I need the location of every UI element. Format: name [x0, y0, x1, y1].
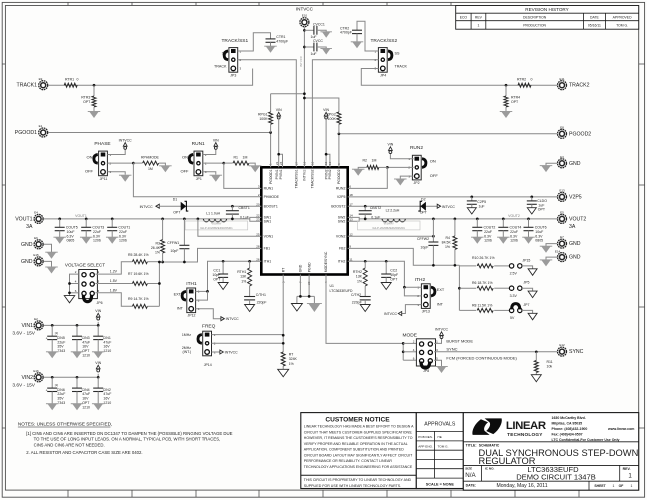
capacitor CLDO 1uF OPT — [531, 197, 533, 201]
wire E7 to ground — [546, 244, 557, 247]
svg-text:0: 0 — [531, 78, 533, 82]
terminal E4 VOUT1 — [34, 214, 43, 223]
resistor RPHMODE 1M — [133, 162, 142, 164]
svg-text:GND: GND — [569, 255, 581, 261]
ground below RTR4 — [501, 112, 511, 119]
svg-text:JP13: JP13 — [422, 309, 430, 313]
node RUN1 junction — [222, 162, 225, 165]
svg-text:REVISION HISTORY: REVISION HISTORY — [525, 7, 568, 12]
INTVCC flag at JP13 — [398, 312, 401, 316]
wire JP4 pin1 to CTR2 — [357, 21, 378, 51]
ground at JP8 pin5 — [437, 367, 447, 374]
svg-text:4700pF: 4700pF — [340, 31, 352, 35]
svg-text:JP14: JP14 — [204, 363, 212, 367]
svg-text:CIN5 AND CIN6 ARE NOT NEEDED.: CIN5 AND CIN6 ARE NOT NEEDED. — [34, 442, 105, 447]
terminal E9 TRACK1 — [39, 81, 48, 90]
resistor RTR3 OPT — [93, 85, 95, 96]
node JP6 bus pin4 — [68, 282, 71, 285]
svg-text:[1]: [1] — [55, 383, 58, 387]
ground below COUT4 — [499, 237, 509, 244]
svg-text:V2P5: V2P5 — [337, 195, 346, 199]
svg-text:INTVCC: INTVCC — [296, 7, 314, 12]
svg-text:PHMODE: PHMODE — [264, 195, 280, 199]
capacitor CTR1 4700pF — [266, 38, 276, 40]
svg-text:(INT.): (INT.) — [182, 350, 191, 354]
svg-text:ITH1: ITH1 — [264, 260, 272, 264]
ground below CIN3 — [72, 352, 82, 359]
svg-text:CTR2: CTR2 — [340, 26, 349, 30]
resistor RTR1 0 — [64, 83, 77, 87]
capacitor CVCC1 1uF — [304, 29, 314, 31]
svg-text:6.3V: 6.3V — [67, 234, 75, 238]
svg-text:OPT: OPT — [213, 278, 221, 282]
capacitor CC1 10pF OPT — [222, 261, 224, 274]
svg-text:VIN: VIN — [276, 108, 282, 112]
node BOOST1/CBST1 — [231, 205, 234, 208]
node FB2/R4 — [454, 264, 457, 267]
capacitor CIN1 47uF — [97, 324, 100, 327]
svg-text:JP3: JP3 — [230, 74, 236, 78]
svg-text:CVCC1: CVCC1 — [313, 22, 325, 26]
ground below COUT5 — [55, 237, 64, 244]
wire VIN1 rail — [44, 324, 99, 326]
resistor R2 1M — [379, 166, 388, 168]
svg-text:CIN5: CIN5 — [57, 336, 65, 340]
svg-text:INTVCC: INTVCC — [119, 138, 133, 142]
svg-text:CFFW2: CFFW2 — [417, 237, 429, 241]
svg-text:324K: 324K — [289, 357, 298, 361]
svg-text:6.3V: 6.3V — [93, 234, 101, 238]
svg-text:GND: GND — [21, 259, 33, 265]
wire JP11 pin3 to ground — [107, 172, 125, 175]
ground after RPHMODE — [161, 166, 171, 173]
svg-text:10pF: 10pF — [420, 245, 428, 249]
svg-text:JP15: JP15 — [522, 258, 530, 262]
svg-text:SUPPLIED FOR USE WITH LINEAR T: SUPPLIED FOR USE WITH LINEAR TECHNOLOGY … — [304, 484, 401, 488]
svg-text:R4: R4 — [446, 236, 451, 240]
svg-text:3.6V - 15V: 3.6V - 15V — [12, 383, 35, 389]
wire to signal ground — [296, 296, 298, 303]
svg-text:100K: 100K — [259, 117, 268, 121]
ground below COUT6 — [524, 237, 534, 244]
wire MODE/SYNC pin to JP8 — [326, 275, 403, 344]
resistor R11 10k — [535, 352, 537, 361]
terminal E7 GND — [558, 239, 567, 248]
svg-text:TRACK/SS1: TRACK/SS1 — [295, 169, 299, 188]
node JP6 bus pin6 — [68, 291, 71, 294]
terminal E6 GND — [34, 240, 43, 249]
svg-text:TOM G.: TOM G. — [438, 445, 449, 449]
capacitor COUT3 22uF — [85, 218, 88, 221]
svg-text:RTR1: RTR1 — [65, 78, 74, 82]
wire JP13 pin3 to INTVCC flag — [402, 305, 422, 314]
svg-text:R11: R11 — [547, 360, 553, 364]
svg-text:3A: 3A — [26, 224, 33, 230]
svg-text:DEMO CIRCUIT 1347B: DEMO CIRCUIT 1347B — [516, 473, 596, 482]
svg-text:SW1: SW1 — [264, 220, 272, 224]
capacitor COUT1 22uF — [111, 218, 114, 221]
svg-text:E3: E3 — [560, 155, 564, 159]
svg-text:SS: SS — [395, 52, 400, 56]
resistor R9 14.7K — [132, 304, 147, 308]
node VOUT1/VON1 — [197, 218, 200, 221]
svg-text:E15: E15 — [33, 253, 39, 257]
jumper JP3 TRACK/SS1 — [229, 48, 238, 73]
node TRACK1/RTR3 junction — [93, 84, 96, 87]
shunt on JP8 bottom row — [421, 362, 430, 368]
wire JP12 pin2 — [196, 291, 208, 300]
svg-text:R2: R2 — [363, 159, 368, 163]
svg-text:E7: E7 — [560, 235, 564, 239]
svg-text:INTVcc: INTVcc — [303, 169, 307, 180]
node JP12 pins1-2 — [206, 290, 209, 293]
wire JP13 pin2 — [404, 287, 421, 296]
svg-text:E4: E4 — [34, 211, 38, 215]
ground below C/TH1 — [245, 305, 255, 312]
terminal E1 PGOOD1 — [39, 128, 48, 137]
svg-text:R8 11.5K 1%: R8 11.5K 1% — [472, 303, 492, 307]
wire JP8 pin4 stub — [403, 351, 416, 353]
svg-text:FB2: FB2 — [339, 247, 345, 251]
capacitor CVCC2 1uF — [304, 46, 314, 48]
svg-text:D2: D2 — [421, 197, 426, 201]
wire PVIN2 feed — [325, 118, 327, 168]
ground below COUT1 — [107, 237, 117, 244]
svg-text:CIN2: CIN2 — [103, 388, 111, 392]
svg-text:10uF: 10uF — [535, 230, 543, 234]
svg-text:22uF: 22uF — [484, 230, 492, 234]
power ground symbol — [308, 304, 320, 313]
node PHMODE junction — [132, 162, 135, 165]
svg-text:IC NO.: IC NO. — [485, 467, 495, 471]
svg-text:GND: GND — [21, 242, 33, 248]
wire PHMODE to U1 — [133, 163, 261, 197]
ground at JP7 — [528, 313, 537, 320]
svg-text:CTR1: CTR1 — [276, 35, 285, 39]
ground below JP6 — [64, 296, 75, 303]
svg-text:1%: 1% — [289, 362, 294, 366]
svg-text:1.5V: 1.5V — [110, 279, 118, 283]
svg-text:16V: 16V — [82, 397, 89, 401]
capacitor CIN4 47uF — [76, 376, 79, 379]
svg-text:84.5K: 84.5K — [442, 241, 452, 245]
svg-text:COUT4: COUT4 — [510, 226, 522, 230]
ground below CC1 — [218, 283, 228, 290]
svg-text:OPT: OPT — [82, 349, 90, 353]
svg-text:RTH2: RTH2 — [353, 270, 362, 274]
svg-text:CIRCUIT BOARD LAYOUT MAY SIGNI: CIRCUIT BOARD LAYOUT MAY SIGNIFICANTLY A… — [304, 453, 413, 457]
svg-text:JP1: JP1 — [196, 177, 202, 181]
svg-text:1630 McCarthy Blvd.: 1630 McCarthy Blvd. — [552, 416, 586, 420]
svg-text:APPLICATION. COMPONENT SUBSTI: APPLICATION. COMPONENT SUBSTITUTION AND … — [304, 448, 404, 452]
wire PGOOD2 riser to U1 — [338, 134, 340, 168]
svg-text:PGOOD1: PGOOD1 — [269, 169, 273, 184]
Linear Technology logo — [472, 419, 489, 435]
svg-text:INTVCC: INTVCC — [442, 205, 456, 209]
node ITH1/RTH1 — [248, 260, 251, 263]
svg-text:PVIN1: PVIN1 — [279, 169, 283, 179]
svg-text:PGOOD2: PGOOD2 — [337, 169, 341, 184]
svg-text:COUT3: COUT3 — [92, 226, 104, 230]
svg-text:ITH2: ITH2 — [338, 260, 346, 264]
capacitor CTR2 4700pF — [352, 29, 362, 31]
svg-text:INTVCC: INTVCC — [299, 55, 303, 67]
wire JP15 to ground — [522, 266, 533, 269]
svg-text:VERIFY PROPER AND RELIABLE OPE: VERIFY PROPER AND RELIABLE OPERATION IN … — [304, 442, 408, 446]
svg-text:OPT: OPT — [83, 100, 91, 104]
ground at E7 — [541, 246, 551, 253]
svg-text:ON: ON — [182, 154, 188, 159]
svg-text:FB1: FB1 — [264, 247, 270, 251]
ground after R2 — [353, 169, 363, 176]
capacitor C/TH2 220pF — [360, 296, 371, 298]
resistor RPG2 100K pullup — [304, 98, 339, 112]
wire V2P5 net — [348, 196, 557, 198]
node JP8 bus pin4 — [402, 350, 405, 353]
wire RT net — [282, 275, 284, 353]
svg-text:VIN2: VIN2 — [21, 375, 33, 381]
svg-text:JP2: JP2 — [413, 181, 419, 185]
node PGOOD1/RPG1 — [269, 131, 272, 134]
svg-text:DATE: DATE — [590, 16, 600, 20]
svg-text:1uF: 1uF — [479, 204, 485, 208]
svg-text:OPT: OPT — [538, 208, 546, 212]
node PVIN2 tie — [325, 153, 328, 156]
wire R8 row — [459, 309, 476, 311]
svg-text:TO THE USE OF LONG INPUT LEADS: TO THE USE OF LONG INPUT LEADS. ON A NOR… — [34, 437, 221, 442]
ground at JP1 pin3 — [211, 175, 221, 182]
node ITH1/CC1 — [222, 260, 225, 263]
svg-text:SCALE = NONE: SCALE = NONE — [426, 482, 455, 486]
wire E6 to ground — [44, 244, 52, 252]
ground at E3 — [541, 166, 551, 173]
wire E14 to ground — [546, 257, 557, 260]
svg-text:JP5: JP5 — [523, 281, 529, 285]
wire JP2 pin3 to ground — [400, 176, 413, 179]
svg-text:220pF: 220pF — [352, 301, 362, 305]
ground below RTR3 — [89, 112, 99, 119]
wire BOOST2 net — [348, 205, 438, 207]
svg-text:Milpitas, CA 95035: Milpitas, CA 95035 — [552, 421, 583, 425]
node CVCC2 tap — [303, 46, 306, 49]
svg-text:ITH2: ITH2 — [415, 277, 426, 283]
svg-text:6.3V: 6.3V — [484, 234, 492, 238]
node V2P5/CLDO — [530, 196, 533, 199]
svg-text:VON2: VON2 — [336, 235, 346, 239]
svg-text:1: 1 — [631, 484, 633, 488]
svg-text:1uF: 1uF — [311, 52, 317, 56]
jumper JP7 5V with shunt — [509, 308, 513, 312]
wire JP14 pin2 to RT — [212, 342, 284, 344]
svg-text:E11: E11 — [559, 77, 564, 81]
node ITH2/RTH2 — [364, 260, 367, 263]
capacitor CIN6 22uF — [51, 376, 54, 379]
wire E15 to ground — [44, 261, 52, 267]
node INTVCC/RPG2 — [303, 97, 306, 100]
svg-text:JP11: JP11 — [100, 177, 108, 181]
wire JP8 pin5 to ground — [434, 360, 441, 366]
svg-text:CFFW1: CFFW1 — [167, 241, 179, 245]
jumper JP12 ITH1 — [187, 288, 196, 313]
svg-text:DATE:: DATE: — [466, 484, 476, 488]
customer notice box — [301, 413, 417, 489]
svg-text:JP8: JP8 — [423, 369, 429, 373]
svg-text:SHEET: SHEET — [594, 484, 606, 488]
svg-text:PRODUCTION: PRODUCTION — [523, 23, 546, 27]
wire JP6 pin3 1.5V row — [95, 283, 132, 285]
svg-text:INTVCC: INTVCC — [140, 205, 154, 209]
signal ground symbol — [291, 304, 302, 312]
svg-text:OPT: OPT — [173, 210, 181, 214]
svg-text:OF: OF — [619, 484, 624, 488]
svg-text:COUT2: COUT2 — [484, 226, 496, 230]
svg-text:VOUT2: VOUT2 — [569, 216, 586, 222]
wire RUN2 to U1 — [348, 167, 388, 188]
svg-text:VISHAY: VISHAY — [211, 222, 221, 226]
svg-text:SCHEMATIC: SCHEMATIC — [479, 444, 500, 448]
terminal E14 GND — [558, 253, 567, 262]
ground at JP11 pin3 — [120, 175, 130, 182]
svg-text:PGOOD1: PGOOD1 — [15, 130, 37, 136]
wire JP6 pin1 1.2V row — [95, 262, 132, 274]
wire PVIN1 feed — [278, 118, 280, 168]
svg-text:COUT6: COUT6 — [535, 226, 547, 230]
svg-text:47uF: 47uF — [82, 392, 90, 396]
node FB1/CFFW1 — [183, 261, 186, 264]
wire VIN2 rail — [44, 376, 99, 378]
wire JP12 pin3 to INTVCC flag — [196, 309, 221, 319]
resistor R1 1M — [224, 162, 233, 164]
svg-text:BOOST2: BOOST2 — [331, 205, 345, 209]
svg-text:E14: E14 — [555, 249, 561, 253]
wire SW2 pins bracket — [348, 217, 360, 221]
svg-text:VON1: VON1 — [264, 235, 274, 239]
resistor R6 18.7K — [477, 286, 493, 290]
svg-text:RTR2: RTR2 — [517, 78, 526, 82]
node FB1/R3 — [161, 261, 164, 264]
wire JP4 pin2 TRACK/SS2 to U1 — [312, 60, 378, 168]
svg-text:22uF: 22uF — [119, 230, 127, 234]
svg-text:REV: REV — [475, 16, 483, 20]
jumper JP13 ITH2 — [421, 284, 430, 309]
svg-text:1: 1 — [477, 23, 479, 27]
wire BOOST1 net — [159, 205, 261, 207]
jumper JP11 PHASE — [99, 151, 108, 176]
revision history table — [456, 6, 639, 30]
svg-text:INT: INT — [177, 307, 184, 311]
wire JP13 pin1 to ITH2 — [404, 286, 421, 288]
svg-text:GND: GND — [569, 161, 581, 167]
svg-text:JP12: JP12 — [188, 314, 196, 318]
svg-text:6.3V: 6.3V — [119, 234, 127, 238]
svg-text:CBST1: CBST1 — [239, 206, 250, 210]
terminal E8 PGOOD2 — [558, 129, 567, 138]
node bus R6 row — [458, 287, 461, 290]
svg-text:TOM G.: TOM G. — [616, 23, 628, 27]
node VON2/CFFW2 — [432, 235, 435, 238]
svg-text:6.3V: 6.3V — [535, 234, 543, 238]
INTVCC flag at JP8 — [440, 332, 444, 336]
svg-text:HE: HE — [438, 435, 442, 439]
svg-text:PERFORMANCE OR RELIABILITY. C: PERFORMANCE OR RELIABILITY. CONTACT LINE… — [304, 459, 393, 463]
svg-text:PGND: PGND — [307, 262, 311, 272]
svg-text:1: 1 — [613, 484, 615, 488]
svg-text:TITLE:: TITLE: — [466, 444, 477, 448]
svg-text:L1 1.0uH: L1 1.0uH — [206, 211, 220, 215]
jumper JP6 voltage select — [79, 270, 98, 299]
jumper JP8 MODE — [416, 339, 435, 366]
resistor R7 19.6K — [132, 282, 147, 286]
svg-text:1210: 1210 — [103, 349, 111, 353]
wire PGND pin to ground tie — [308, 275, 310, 297]
svg-text:TRACK/SS1: TRACK/SS1 — [222, 38, 249, 44]
svg-text:2. ALL RESISTOR AND CAPACITOR: 2. ALL RESISTOR AND CAPACITOR CASE SIZE … — [26, 450, 142, 455]
resistor RT 324K — [281, 352, 285, 366]
jumper JP2 RUN2 — [412, 155, 421, 180]
svg-text:+: + — [46, 388, 48, 392]
svg-text:05/16/11: 05/16/11 — [588, 23, 601, 27]
wire FB1 divider bus — [158, 262, 160, 307]
svg-text:IHLP-2020BZER1R0M01: IHLP-2020BZER1R0M01 — [200, 226, 233, 230]
svg-text:VOLTAGE SELECT: VOLTAGE SELECT — [65, 263, 105, 268]
svg-text:0: 0 — [77, 78, 79, 82]
svg-text:Monday, May 16, 2011: Monday, May 16, 2011 — [496, 483, 547, 489]
node VOUT2/R4 — [454, 218, 457, 221]
ground after R1 — [250, 166, 260, 173]
ground below COUT2 — [473, 237, 483, 244]
svg-text:GND: GND — [299, 264, 303, 272]
svg-text:100K: 100K — [328, 117, 337, 121]
wire SW1 pins bracket — [250, 217, 261, 221]
node ITH2/CC2 — [385, 260, 388, 263]
svg-text:R10 26.7K 1%: R10 26.7K 1% — [472, 256, 495, 260]
wire JP1 pin2 RUN1 net — [203, 162, 224, 164]
svg-text:47uF: 47uF — [82, 340, 90, 344]
svg-text:VOUT1: VOUT1 — [75, 214, 87, 218]
svg-text:220pF: 220pF — [257, 301, 267, 305]
node SW2/CBST2 — [364, 218, 367, 221]
ground below R11 — [531, 375, 541, 382]
wire JP6 pin5 1.8V row — [95, 293, 132, 307]
svg-text:1210: 1210 — [103, 401, 111, 405]
ground at JP15 — [528, 269, 537, 276]
svg-text:7343: 7343 — [57, 401, 65, 405]
ground after CVCC1 — [322, 32, 331, 38]
svg-text:FREQ: FREQ — [202, 324, 216, 330]
svg-text:LTC3633EUFD: LTC3633EUFD — [330, 289, 353, 293]
svg-text:OFF: OFF — [430, 173, 439, 178]
svg-text:CIRCUIT THAT MEETS CUSTOMER-SU: CIRCUIT THAT MEETS CUSTOMER-SUPPLIED SPE… — [304, 430, 413, 434]
VIN flag at VIN2 bank — [96, 365, 100, 369]
capacitor CBST2 0.1uF — [364, 206, 366, 211]
wire JP14 pin1 to RT — [212, 334, 284, 336]
svg-text:CBST2: CBST2 — [370, 206, 381, 210]
node VOUT1/R3 — [161, 218, 164, 221]
svg-text:E1: E1 — [39, 124, 43, 128]
svg-text:LINEAR: LINEAR — [506, 420, 546, 432]
svg-text:SW2: SW2 — [338, 220, 346, 224]
ground at E6 — [47, 252, 57, 259]
wire JP2 pin1 to VIN flag — [390, 153, 413, 159]
wire PGOOD2 net — [339, 133, 557, 135]
svg-text:Phone: (408)432-1900: Phone: (408)432-1900 — [552, 427, 588, 431]
ground at JP2 pin3 — [396, 179, 406, 186]
svg-text:IHLP-2020BZER2R2M01: IHLP-2020BZER2R2M01 — [372, 226, 405, 230]
wire JP3 pin2 TRACK/SS1 to U1 — [238, 60, 297, 168]
wire R6 row — [459, 287, 476, 289]
svg-text:1%: 1% — [155, 250, 160, 254]
INTVCC flag at JP11 — [123, 143, 127, 147]
